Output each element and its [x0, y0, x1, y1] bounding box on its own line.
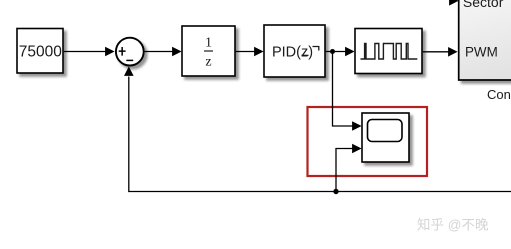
- svg-text:PID(z): PID(z): [272, 45, 313, 61]
- wire sum to unit delay: [144, 47, 182, 57]
- unit delay block 1/z: [182, 26, 235, 76]
- wire unit delay to PID: [236, 47, 264, 57]
- feedback junction node: [333, 189, 338, 194]
- wire feedback node up to scope input 2: [336, 144, 362, 192]
- svg-text:Controller: Controller: [487, 87, 511, 102]
- node after PID output: [330, 49, 335, 54]
- watermark zhihu: [417, 217, 490, 234]
- wire into Sector input: [449, 0, 459, 6]
- constant block 75000: [17, 29, 63, 74]
- scope block: [362, 113, 409, 162]
- svg-text:Sector: Sector: [463, 0, 504, 10]
- svg-text:PWM: PWM: [465, 45, 498, 60]
- controller subsystem block (Sector / PWM): [459, 0, 511, 80]
- pulse generator block: [355, 29, 422, 74]
- feedback wire: [124, 66, 511, 191]
- wire pulse generator to PWM input: [423, 47, 458, 57]
- sum block: [116, 38, 144, 66]
- wire PID to pulse generator: [326, 47, 355, 57]
- svg-text:75000: 75000: [19, 44, 62, 61]
- wire constant to sum: [64, 47, 115, 57]
- svg-text:1: 1: [205, 36, 212, 51]
- svg-text:知乎 @不晚: 知乎 @不晚: [417, 217, 489, 233]
- red highlight rectangle: [308, 107, 428, 176]
- PID controller block PID(z): [264, 25, 325, 77]
- wire PID node down to scope input 1: [333, 52, 362, 131]
- svg-text:z: z: [205, 55, 211, 70]
